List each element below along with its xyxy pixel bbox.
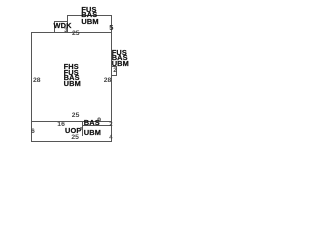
dim 28 right bbox=[104, 78, 112, 84]
wdk box top edge bbox=[54, 21, 69, 22]
dim 5 top box bbox=[109, 25, 113, 31]
right stack UBM bbox=[112, 61, 129, 67]
dim 2 strip right bbox=[109, 122, 112, 128]
bump box bottom edge bbox=[111, 75, 117, 76]
UOP label bbox=[65, 128, 81, 134]
dim 4 strip right bbox=[109, 135, 112, 141]
main box right edge bbox=[111, 15, 112, 142]
top box left edge bbox=[67, 15, 68, 32]
bump box top edge bbox=[111, 66, 117, 67]
bottom BAS label bbox=[84, 120, 100, 126]
main box left edge bbox=[31, 32, 32, 143]
dim 25 top bbox=[72, 31, 80, 37]
main box top edge bbox=[31, 32, 112, 33]
top box top edge bbox=[67, 15, 112, 16]
dim 3 under WDK bbox=[64, 28, 67, 34]
tiny mark after UOP bbox=[80, 126, 83, 132]
center stack BAS bbox=[64, 75, 80, 81]
right stack FUS bbox=[112, 50, 127, 56]
strip divider horizontal under BAS bbox=[82, 125, 113, 126]
dim 25 bottom bbox=[71, 135, 79, 141]
wdk box left edge bbox=[54, 21, 55, 33]
center stack FHS bbox=[64, 64, 79, 70]
dim 2 bump bbox=[113, 68, 117, 74]
bump box right edge bbox=[116, 66, 117, 77]
center stack UBM bbox=[64, 81, 81, 87]
dim 6 left strip bbox=[31, 129, 35, 135]
dim 16 bbox=[57, 122, 65, 128]
top stack FUS bbox=[81, 7, 96, 13]
dim 28 left bbox=[33, 78, 41, 84]
dim 9 superscript bbox=[97, 118, 101, 124]
top stack BAS bbox=[81, 12, 97, 18]
main box bottom edge bbox=[31, 121, 112, 122]
bottom UBM label bbox=[84, 130, 101, 136]
strip divider vertical bbox=[82, 121, 83, 136]
WDK label bbox=[54, 23, 72, 29]
dim 25 mid bbox=[72, 113, 80, 119]
right stack BAS bbox=[112, 55, 128, 61]
top stack UBM bbox=[81, 19, 98, 25]
strip bottom edge bbox=[31, 141, 112, 142]
center stack FUS bbox=[64, 70, 79, 76]
